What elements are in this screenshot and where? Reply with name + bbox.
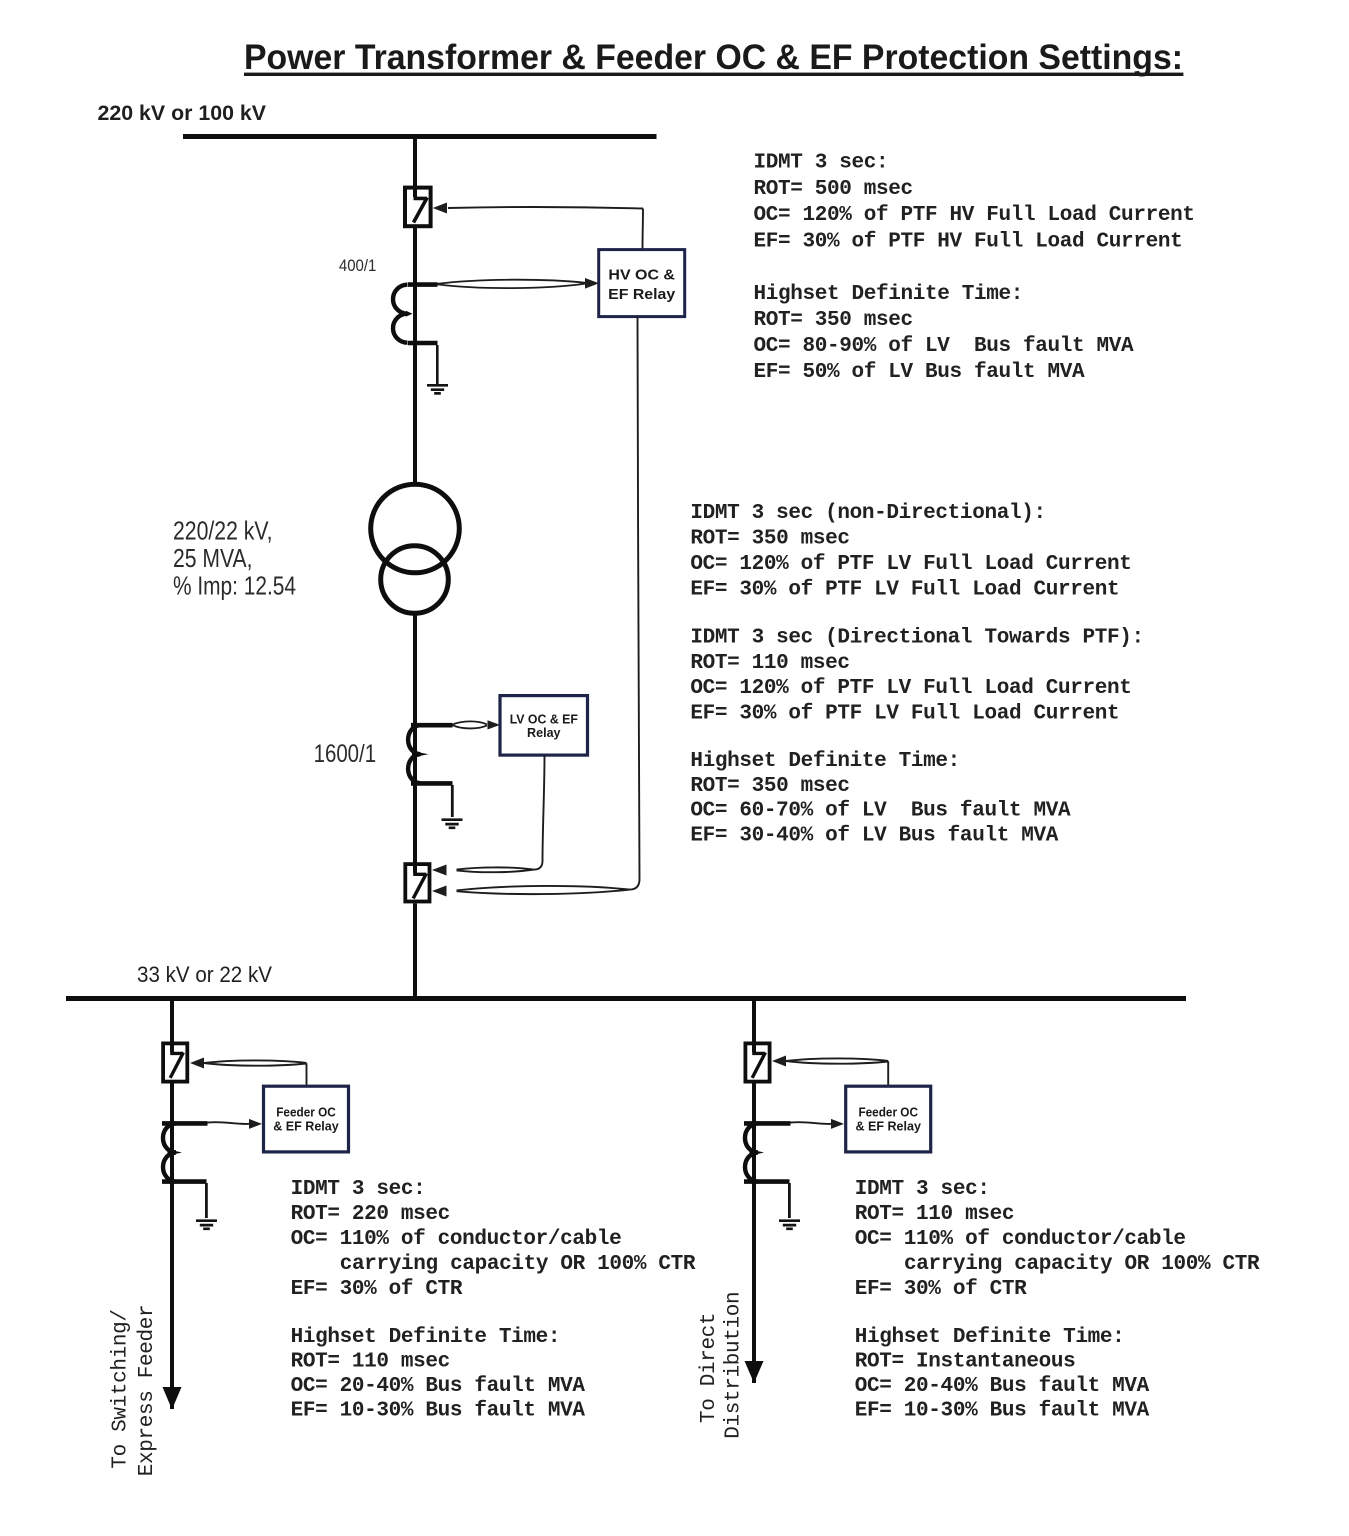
svg-text:EF= 30-40% of LV Bus fault MVA: EF= 30-40% of LV Bus fault MVA <box>690 825 1058 848</box>
CT3 (feeder 1) <box>162 1123 208 1409</box>
feeder 1 arrow to load <box>163 1387 182 1410</box>
svg-text:220 kV or 100 kV: 220 kV or 100 kV <box>98 101 267 125</box>
svg-text:220/22 kV,: 220/22 kV, <box>173 515 273 545</box>
svg-text:EF Relay: EF Relay <box>608 286 676 303</box>
relay U2 LV OC & EF <box>500 696 588 756</box>
svg-text:To Switching/: To Switching/ <box>110 1309 133 1468</box>
rotated label feeder 2 <box>698 1292 746 1439</box>
arrowhead into HV relay <box>585 278 599 289</box>
ground (CT2) <box>442 820 463 828</box>
svg-text:Highset Definite Time:: Highset Definite Time: <box>690 750 960 773</box>
relay U1 HV OC & EF <box>599 250 685 317</box>
CT2 (1600/1) <box>408 725 452 866</box>
svg-text:Power Transformer & Feeder OC: Power Transformer & Feeder OC & EF Prote… <box>244 37 1183 77</box>
wire CB4 to CT4 <box>752 1084 756 1126</box>
trip arrowhead into CB1 <box>433 203 447 214</box>
CT1 earth drop <box>436 345 439 384</box>
svg-text:IDMT 3 sec:: IDMT 3 sec: <box>754 152 889 175</box>
trip arrowhead into CB3 <box>190 1058 204 1069</box>
svg-text:OC= 60-70% of LV Bus fault MV: OC= 60-70% of LV Bus fault MVA <box>690 800 1071 823</box>
svg-text:IDMT 3 sec:: IDMT 3 sec: <box>855 1178 990 1201</box>
svg-text:EF= 10-30% Bus fault MVA: EF= 10-30% Bus fault MVA <box>291 1400 586 1423</box>
feeder 1: wire bus to CB3 <box>170 1001 174 1042</box>
svg-text:Relay: Relay <box>527 725 561 740</box>
svg-text:Express Feeder: Express Feeder <box>136 1305 159 1477</box>
arrowhead into CB2 (from HV relay) <box>432 886 447 897</box>
wire CB1 to CT1 <box>413 228 417 288</box>
title <box>244 37 1183 77</box>
svg-text:ROT= 110 msec: ROT= 110 msec <box>855 1203 1014 1226</box>
ground (CT1) <box>427 385 448 393</box>
CT1 secondary wire to HV relay (lens) <box>438 280 586 288</box>
svg-text:EF= 30% of CTR: EF= 30% of CTR <box>291 1278 463 1301</box>
svg-text:Feeder OC: Feeder OC <box>276 1106 336 1120</box>
arrowhead into CB2 (from LV relay) <box>432 865 447 876</box>
svg-text:OC= 20-40% Bus fault MVA: OC= 20-40% Bus fault MVA <box>855 1375 1150 1398</box>
arrowhead into feeder relay 2 <box>831 1119 844 1129</box>
wire CT1 to transformer <box>413 440 417 484</box>
CT1 (400/1) <box>393 284 438 486</box>
CT4 (feeder 2) <box>744 1123 791 1383</box>
trip wire feeder relay 2 to CB4 <box>786 1058 888 1084</box>
svg-text:ROT= 110 msec: ROT= 110 msec <box>291 1350 450 1373</box>
circuit breaker CB2 (LV) <box>405 864 429 902</box>
CT4 secondary wire to feeder relay 2 <box>791 1122 832 1124</box>
CT2 secondary wire to LV relay (lens) <box>453 721 488 728</box>
svg-text:& EF Relay: & EF Relay <box>855 1120 921 1134</box>
CT3 earth drop <box>205 1183 208 1218</box>
svg-text:ROT= 110 msec: ROT= 110 msec <box>690 652 849 675</box>
settings text block A (HV relay) <box>754 152 1195 384</box>
svg-text:33 kV or 22 kV: 33 kV or 22 kV <box>137 962 272 987</box>
svg-text:OC= 80-90% of LV Bus fault MV: OC= 80-90% of LV Bus fault MVA <box>754 335 1135 358</box>
svg-text:carrying capacity OR 100% CTR: carrying capacity OR 100% CTR <box>904 1253 1260 1276</box>
settings text block D (feeder 2) <box>855 1178 1260 1423</box>
svg-text:400/1: 400/1 <box>339 257 377 275</box>
trip wire feeder relay 1 to CB3 <box>204 1060 307 1084</box>
svg-text:EF= 30% of PTF LV Full Load Cu: EF= 30% of PTF LV Full Load Current <box>690 579 1119 602</box>
wire CT2 to CB2 <box>413 850 417 874</box>
svg-text:Distribution: Distribution <box>723 1292 746 1439</box>
CT2 earth drop <box>451 785 454 817</box>
transformer T1 <box>371 484 460 613</box>
svg-text:Highset Definite Time:: Highset Definite Time: <box>291 1326 561 1349</box>
svg-text:To Direct: To Direct <box>698 1313 721 1423</box>
svg-text:EF= 10-30% Bus fault MVA: EF= 10-30% Bus fault MVA <box>855 1400 1150 1423</box>
transformer label <box>173 515 296 600</box>
CT4 earth drop <box>788 1183 791 1218</box>
svg-text:EF= 50% of LV Bus fault MVA: EF= 50% of LV Bus fault MVA <box>754 361 1086 384</box>
ground (CT3) <box>196 1221 217 1229</box>
svg-text:OC= 120% of PTF LV Full Load C: OC= 120% of PTF LV Full Load Current <box>690 677 1131 700</box>
svg-text:OC= 110% of conductor/cable: OC= 110% of conductor/cable <box>291 1228 622 1251</box>
svg-text:Highset Definite Time:: Highset Definite Time: <box>855 1326 1125 1349</box>
svg-text:IDMT 3 sec (non-Directional):: IDMT 3 sec (non-Directional): <box>690 502 1045 525</box>
arrowhead into LV relay <box>488 720 501 729</box>
svg-text:& EF Relay: & EF Relay <box>273 1120 339 1134</box>
trip wire LV relay to CB2 <box>457 756 545 873</box>
circuit breaker CB4 (feeder 2) <box>745 1043 769 1082</box>
bus 220kV <box>183 134 657 139</box>
feeder 2: wire bus to CB4 <box>752 1001 756 1042</box>
wire CB2 to 33kV bus <box>413 904 417 997</box>
arrowhead into feeder relay 1 <box>249 1119 262 1129</box>
svg-text:1600/1: 1600/1 <box>314 740 377 768</box>
svg-text:OC= 120% of PTF LV Full Load C: OC= 120% of PTF LV Full Load Current <box>690 553 1131 576</box>
svg-text:ROT= 350 msec: ROT= 350 msec <box>690 527 849 550</box>
svg-text:Feeder OC: Feeder OC <box>858 1106 918 1120</box>
CT3 secondary wire to feeder relay 1 <box>208 1122 250 1124</box>
settings text block B (LV relay) <box>690 502 1143 848</box>
svg-text:HV OC &: HV OC & <box>608 267 675 284</box>
trip arrowhead into CB4 <box>772 1056 786 1067</box>
wire transformer to CT2 <box>413 613 417 725</box>
feeder 2 arrow to load <box>745 1361 764 1383</box>
circuit breaker CB1 (HV) <box>405 188 431 227</box>
wire bus to CB1 <box>413 139 417 188</box>
svg-text:EF= 30% of CTR: EF= 30% of CTR <box>855 1278 1027 1301</box>
rotated label feeder 1 <box>110 1305 159 1477</box>
svg-text:EF= 30% of PTF LV Full Load Cu: EF= 30% of PTF LV Full Load Current <box>690 702 1119 725</box>
svg-text:% Imp: 12.54: % Imp: 12.54 <box>173 570 296 600</box>
svg-text:ROT= 350 msec: ROT= 350 msec <box>690 775 849 798</box>
svg-text:25 MVA,: 25 MVA, <box>173 543 253 573</box>
svg-text:ROT= Instantaneous: ROT= Instantaneous <box>855 1350 1076 1373</box>
svg-text:OC= 120% of PTF HV Full Load C: OC= 120% of PTF HV Full Load Current <box>754 204 1195 227</box>
bus 33kV <box>66 996 1186 1001</box>
svg-text:IDMT 3 sec (Directional Toward: IDMT 3 sec (Directional Towards PTF): <box>690 627 1143 650</box>
circuit breaker CB3 (feeder 1) <box>163 1043 187 1082</box>
svg-text:OC= 20-40% Bus fault MVA: OC= 20-40% Bus fault MVA <box>291 1375 586 1398</box>
ground (CT4) <box>779 1221 800 1229</box>
svg-text:ROT= 350 msec: ROT= 350 msec <box>754 309 913 332</box>
svg-text:IDMT 3 sec:: IDMT 3 sec: <box>291 1178 426 1201</box>
trip wire HV relay to CB2 (long) <box>457 317 640 895</box>
svg-text:EF= 30% of PTF HV Full Load Cu: EF= 30% of PTF HV Full Load Current <box>754 230 1183 253</box>
relay U3 Feeder OC & EF (left) <box>264 1086 349 1152</box>
svg-text:ROT= 500 msec: ROT= 500 msec <box>754 178 913 201</box>
settings text block C (feeder 1) <box>291 1178 696 1423</box>
svg-text:Highset Definite Time:: Highset Definite Time: <box>754 283 1024 306</box>
svg-text:OC= 110% of conductor/cable: OC= 110% of conductor/cable <box>855 1228 1186 1251</box>
trip wire HV relay to CB1 <box>448 207 643 249</box>
svg-text:carrying capacity OR 100% CTR: carrying capacity OR 100% CTR <box>340 1253 696 1276</box>
relay U4 Feeder OC & EF (right) <box>846 1086 931 1152</box>
svg-text:ROT= 220 msec: ROT= 220 msec <box>291 1203 450 1226</box>
wire CB3 to CT3 <box>170 1084 174 1126</box>
